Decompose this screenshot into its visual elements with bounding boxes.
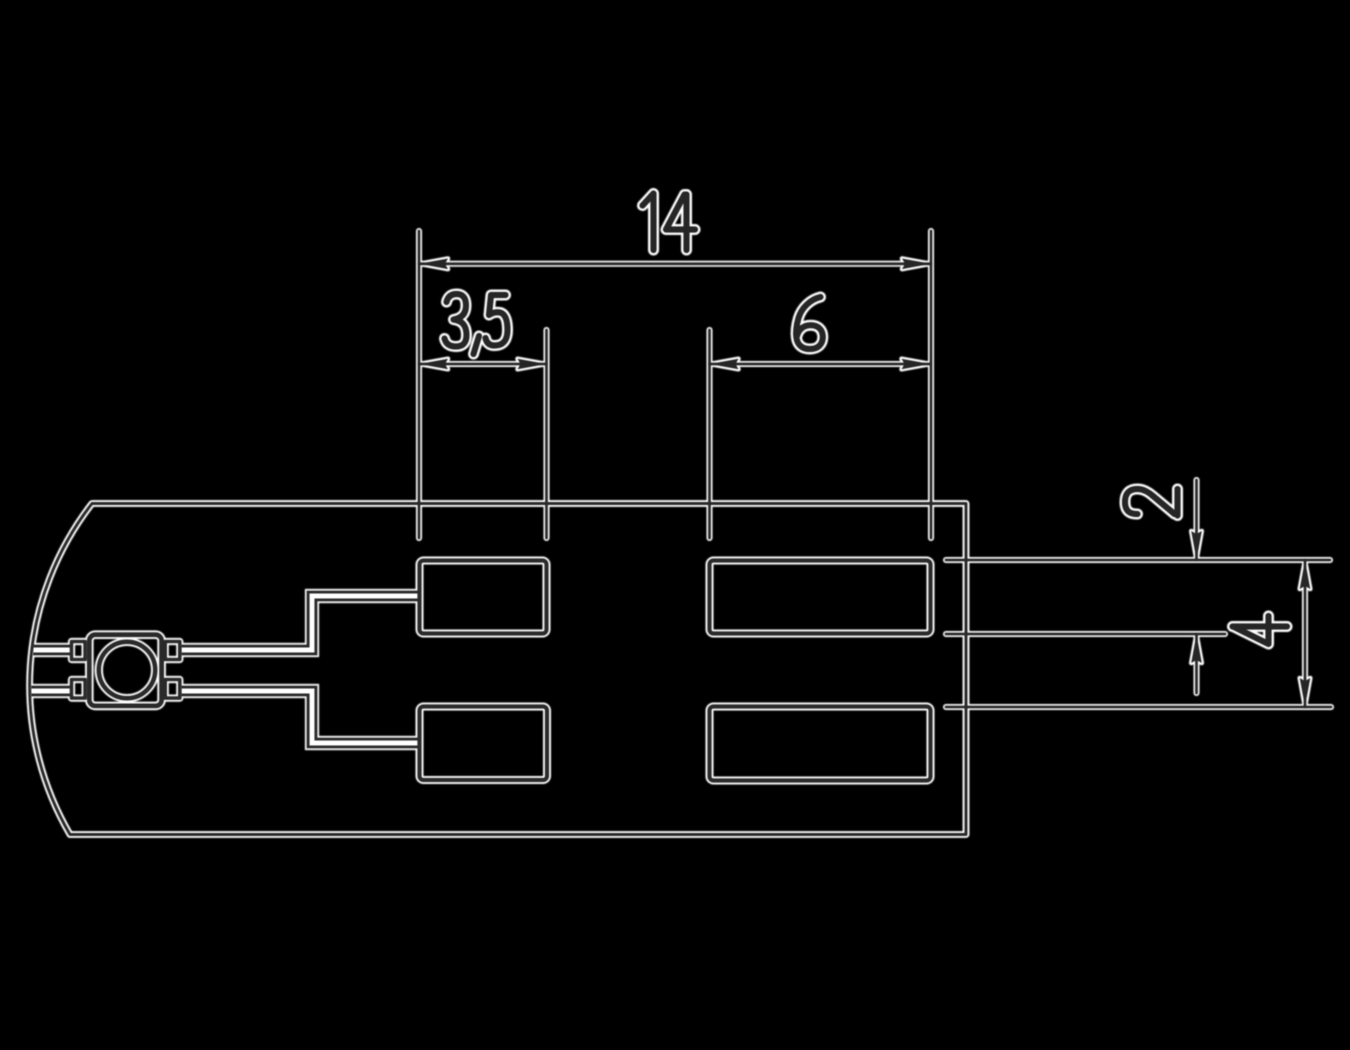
arrowhead 2 down (halo) — [1191, 531, 1202, 560]
LED lens circle (halo) — [99, 642, 155, 698]
trace T2 to lower pad (rails) — [181, 691, 420, 743]
dimension line 2 lower segment (halo) — [1194, 634, 1200, 693]
dimension line 6 (halo) — [710, 361, 931, 367]
arrowhead 4 up — [1300, 560, 1311, 589]
arrowhead 6 left (halo) — [710, 359, 739, 370]
arrowhead 4 down (halo) — [1300, 678, 1311, 707]
label 14 digit 1 (halo) — [643, 194, 654, 251]
extension line y707 (halo) — [946, 704, 1331, 710]
trace T1 to upper pad (fill) — [181, 596, 420, 650]
LED lens circle — [99, 642, 155, 698]
LED tab upper-left — [72, 642, 86, 660]
LED body U1 (halo) — [89, 635, 161, 706]
extension line x546 (halo) — [544, 330, 550, 538]
extension line x709 (halo) — [707, 330, 713, 538]
dimension line 14 (halo) — [419, 261, 931, 267]
arrowhead 2 down — [1191, 531, 1202, 560]
label 2 rotated — [1125, 489, 1178, 516]
dimension line 2 upper segment — [1195, 480, 1198, 560]
pad P4 lower-right — [710, 707, 931, 781]
label 3,5 digit 5 — [486, 295, 508, 346]
LED tab upper-right — [165, 642, 180, 660]
plate outline — [30, 504, 966, 835]
label 4 rotated (halo) — [1233, 616, 1288, 644]
label 3,5 comma — [474, 336, 480, 354]
arrowhead 3,5 right — [518, 359, 547, 370]
label 6 (halo) — [796, 297, 823, 349]
pad P1 upper-left (halo) — [420, 561, 547, 634]
wire W1 upper-left lead (halo) — [33, 643, 71, 657]
label 14 digit 1 — [643, 194, 654, 251]
pad P1 upper-left — [420, 561, 547, 634]
arrowhead 6 left — [710, 359, 739, 370]
label 3,5 digit 3 (halo) — [445, 294, 467, 347]
LED tab lower-left (halo) — [72, 680, 86, 699]
arrowhead 14 left — [419, 259, 448, 270]
dimension line 6 — [710, 363, 931, 366]
label 14 digit 4 (halo) — [666, 195, 695, 251]
dimension line 4 — [1304, 560, 1307, 707]
extension line right x931 (halo) — [928, 231, 934, 538]
pad P3 lower-left (halo) — [420, 707, 548, 781]
wire W2 lower-left lead (halo) — [31, 684, 71, 698]
wire W2 lower-left lead (rails) — [31, 686, 71, 697]
LED body U1 — [89, 635, 161, 706]
label 6 — [796, 297, 823, 349]
extension line left x419 (halo) — [416, 231, 422, 538]
extension line y634 (halo) — [946, 631, 1225, 637]
extension line right x931 — [930, 231, 933, 538]
extension line y560 (halo) — [946, 557, 1330, 563]
wire W2 lower-left lead (fill) — [31, 689, 71, 694]
LED tab lower-right — [165, 680, 180, 699]
LED tab lower-left — [72, 680, 86, 699]
arrowhead 2 up (halo) — [1191, 634, 1202, 663]
arrowhead 14 right (halo) — [902, 259, 931, 270]
extension line y634 — [946, 633, 1225, 636]
extension line x709 — [708, 330, 711, 538]
arrowhead 4 up (halo) — [1300, 560, 1311, 589]
LED tab upper-right (halo) — [165, 642, 180, 660]
trace T1 to upper pad (rails) — [181, 596, 420, 650]
label 2 rotated (halo) — [1125, 489, 1178, 516]
trace T2 to lower pad (fill) — [181, 691, 420, 743]
extension line x546 — [545, 330, 548, 538]
extension line left x419 — [418, 231, 421, 538]
arrowhead 14 left (halo) — [419, 259, 448, 270]
arrowhead 6 right (halo) — [902, 359, 931, 370]
wire W1 upper-left lead (fill) — [33, 648, 71, 653]
arrowhead 3,5 right (halo) — [518, 359, 547, 370]
pad P4 lower-right (halo) — [710, 707, 931, 781]
dimension line 2 lower segment — [1195, 634, 1198, 693]
pad P2 upper-right — [710, 561, 931, 634]
dimension line 4 (halo) — [1302, 560, 1308, 707]
trace T2 to lower pad (halo) — [181, 691, 420, 743]
plate outline (halo) — [30, 504, 966, 835]
dimension line 3,5 — [419, 363, 547, 366]
label 3,5 comma (halo) — [474, 336, 480, 354]
trace T1 to upper pad (halo) — [181, 596, 420, 650]
pad P2 upper-right (halo) — [710, 561, 931, 634]
extension line y707 — [946, 706, 1331, 709]
arrowhead 3,5 left — [419, 359, 448, 370]
label 3,5 digit 3 — [445, 294, 467, 347]
dimension line 2 upper segment (halo) — [1194, 480, 1200, 560]
dimension line 14 — [419, 262, 931, 265]
label 4 rotated — [1233, 616, 1288, 644]
arrowhead 4 down — [1300, 678, 1311, 707]
arrowhead 6 right — [902, 359, 931, 370]
wire W1 upper-left lead (rails) — [33, 645, 71, 656]
extension line y560 — [946, 559, 1330, 562]
arrowhead 3,5 left (halo) — [419, 359, 448, 370]
arrowhead 2 up — [1191, 634, 1202, 663]
arrowhead 14 right — [902, 259, 931, 270]
LED tab lower-right (halo) — [165, 680, 180, 699]
pad P3 lower-left — [420, 707, 548, 781]
LED tab upper-left (halo) — [72, 642, 86, 660]
label 3,5 digit 5 (halo) — [486, 295, 508, 346]
label 14 digit 4 — [666, 195, 695, 251]
dimension line 3,5 (halo) — [419, 361, 547, 367]
